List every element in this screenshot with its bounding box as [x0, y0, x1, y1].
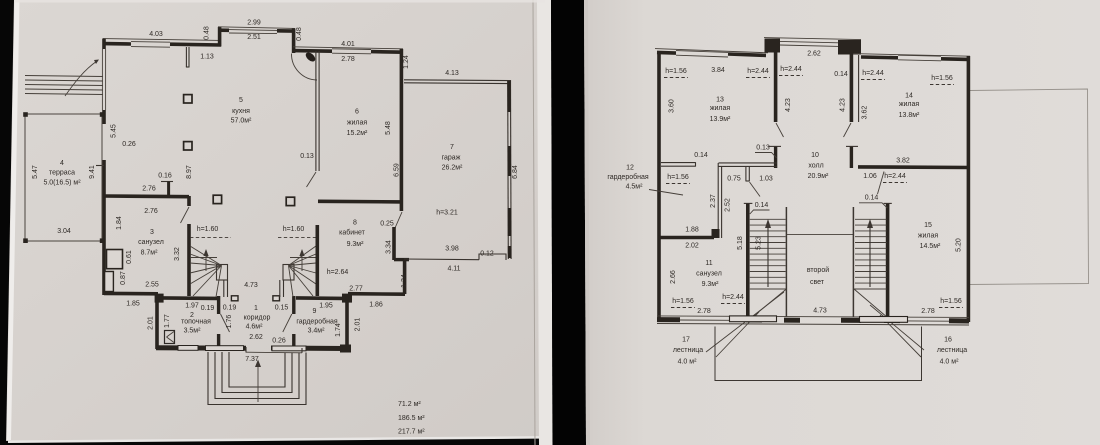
bottom-left outer wall (1.85)	[104, 292, 158, 296]
svg-text:1: 1	[254, 305, 258, 312]
window in top wall (4.01)	[332, 48, 371, 51]
stair2 right wall	[886, 203, 890, 317]
svg-text:0.48: 0.48	[296, 27, 303, 41]
svg-text:топочная: топочная	[181, 319, 211, 326]
svg-text:0.48: 0.48	[204, 26, 211, 40]
svg-text:5.45: 5.45	[111, 124, 118, 138]
closet stub wall right	[850, 146, 853, 168]
svg-text:20.9м²: 20.9м²	[808, 173, 829, 180]
svg-text:13.8м²: 13.8м²	[899, 112, 920, 119]
door leaf below	[776, 123, 784, 137]
svg-text:2.02: 2.02	[685, 243, 699, 250]
right paper left-edge highlight	[584, 0, 590, 445]
svg-text:3.82: 3.82	[896, 158, 910, 165]
svg-text:h=1.60: h=1.60	[283, 226, 305, 233]
dormer bump right block	[838, 40, 861, 55]
topochnaya side door symbol	[165, 331, 175, 344]
svg-text:h=2.44: h=2.44	[722, 294, 744, 301]
svg-text:0.13: 0.13	[756, 145, 770, 152]
svg-text:0.16: 0.16	[158, 173, 172, 180]
svg-text:кухня: кухня	[232, 108, 250, 115]
lower right wall (1.34)	[403, 259, 407, 294]
svg-text:2.78: 2.78	[921, 308, 935, 315]
bottom wall right with window	[271, 346, 345, 352]
svg-text:2.78: 2.78	[341, 56, 355, 63]
svg-text:9.3м²: 9.3м²	[347, 241, 365, 248]
svg-text:4.0 м²: 4.0 м²	[678, 359, 697, 366]
topochnaya top wall	[159, 296, 217, 300]
svg-text:5.0(16.5) м²: 5.0(16.5) м²	[43, 180, 81, 187]
svg-text:8.97: 8.97	[186, 165, 193, 179]
svg-text:4.23: 4.23	[840, 98, 847, 112]
stair 2 landing post rect	[283, 265, 294, 281]
stair 2 arrow	[301, 254, 303, 271]
svg-text:1.97: 1.97	[185, 303, 199, 310]
stair1 inner boundary	[785, 207, 787, 317]
svg-text:второй: второй	[807, 266, 829, 274]
garage right wall	[507, 80, 510, 259]
svg-text:0.26: 0.26	[122, 141, 136, 148]
stair 1 winder fan	[190, 246, 222, 266]
room12 bottom wall	[658, 236, 714, 240]
stair 1 landing post rect	[217, 265, 228, 281]
room12 right wall	[717, 163, 719, 238]
wall stub 0.14 on left wall	[661, 162, 696, 164]
terrace deck outline	[25, 114, 102, 241]
svg-text:2.77: 2.77	[349, 286, 363, 293]
right paper sheet	[584, 0, 1100, 445]
svg-text:2.51: 2.51	[247, 34, 261, 41]
entry door swing arc	[291, 54, 317, 81]
house left outer wall	[102, 39, 106, 50]
svg-text:6.84: 6.84	[512, 165, 519, 179]
top wall right section	[852, 54, 970, 57]
svg-text:жилая: жилая	[918, 233, 939, 240]
svg-text:15: 15	[924, 222, 932, 229]
svg-text:4.23: 4.23	[785, 98, 792, 112]
dormer bump left block	[765, 39, 781, 53]
svg-text:4.0 м²: 4.0 м²	[940, 359, 959, 366]
kabinet right wall (3.34)	[392, 227, 396, 260]
entry door leaf (filled)	[304, 51, 317, 64]
svg-text:h=1.56: h=1.56	[665, 68, 687, 75]
svg-text:4.11: 4.11	[447, 266, 460, 273]
svg-text:0.75: 0.75	[727, 176, 741, 183]
stair1 break diagonal	[750, 289, 786, 319]
svg-text:0.14: 0.14	[755, 202, 769, 209]
left paper sheet	[6, 0, 553, 445]
svg-text:9: 9	[313, 308, 317, 315]
svg-text:26.2м²: 26.2м²	[442, 165, 463, 172]
svg-text:1.86: 1.86	[369, 302, 383, 309]
house right outer wall	[400, 49, 404, 211]
svg-text:2.37: 2.37	[710, 194, 717, 208]
svg-text:3.62: 3.62	[862, 106, 869, 120]
svg-text:4.01: 4.01	[341, 41, 355, 48]
corner block	[155, 294, 164, 303]
svg-text:0.26: 0.26	[272, 338, 286, 345]
left paper top-edge light line	[14, 0, 545, 3]
closet stub wall left (0.13)	[774, 146, 777, 168]
svg-text:2.01: 2.01	[148, 316, 155, 330]
svg-text:8.7м²: 8.7м²	[141, 250, 159, 257]
svg-text:1.03: 1.03	[759, 176, 773, 183]
svg-text:5.20: 5.20	[956, 238, 963, 252]
svg-text:186.5 м²: 186.5 м²	[398, 415, 425, 422]
svg-text:h=1.60: h=1.60	[197, 226, 219, 233]
left paper bottom black strip	[0, 438, 552, 445]
svg-text:1.74: 1.74	[335, 323, 342, 337]
svg-text:3.84: 3.84	[711, 67, 725, 74]
svg-text:4.5м²: 4.5м²	[626, 184, 644, 191]
lower niche in left wall	[105, 272, 114, 292]
svg-text:3.98: 3.98	[445, 246, 459, 253]
left wall segment below window	[102, 110, 106, 124]
svg-text:217.7 м²: 217.7 м²	[398, 429, 425, 436]
svg-text:6.59: 6.59	[394, 163, 401, 177]
kabinet door leaf	[395, 212, 402, 228]
roof terrace faint rectangle	[970, 89, 1089, 285]
bottom wall window mid lines	[680, 319, 730, 321]
svg-text:4.13: 4.13	[445, 70, 459, 77]
svg-text:0.15: 0.15	[275, 305, 289, 312]
svg-text:санузел: санузел	[138, 239, 164, 246]
kabinet bottom wall (1.86)	[348, 292, 405, 296]
sanuzel right wall upper jamb	[187, 196, 191, 206]
porch arrow	[257, 364, 259, 402]
svg-text:гардеробная: гардеробная	[607, 173, 649, 181]
leader line to garderobnaya label	[649, 190, 683, 196]
svg-text:h=2.44: h=2.44	[884, 173, 906, 180]
svg-text:0.61: 0.61	[126, 250, 133, 264]
svg-text:жилая: жилая	[899, 101, 920, 108]
left paper right-edge shadow line	[533, 0, 535, 445]
sanuzel top wall	[104, 194, 189, 198]
svg-text:3.34: 3.34	[386, 240, 393, 254]
bottom outer wall	[657, 324, 969, 326]
entry bump top wall (2.99)	[218, 27, 295, 29]
svg-text:15.2м²: 15.2м²	[347, 130, 368, 137]
svg-text:4: 4	[60, 160, 64, 167]
terrace corner posts	[23, 112, 28, 117]
svg-text:13: 13	[716, 97, 724, 104]
room15 top wall 3.82	[858, 165, 969, 169]
svg-text:h=1.56: h=1.56	[667, 174, 689, 181]
outer top wall right section (4.01)	[293, 47, 403, 49]
garderobnaya top wall	[296, 296, 343, 300]
svg-text:0.19: 0.19	[201, 305, 215, 312]
garage right wall thick tabs	[507, 81, 511, 112]
small tick at wall resume	[96, 165, 104, 167]
svg-text:h=2.44: h=2.44	[780, 66, 802, 73]
right corner block	[342, 294, 352, 303]
svg-text:2.99: 2.99	[247, 20, 261, 27]
svg-text:5.47: 5.47	[32, 165, 39, 179]
sanuzel/stair left wall	[746, 203, 750, 317]
svg-text:2.01: 2.01	[355, 318, 362, 332]
svg-text:4.03: 4.03	[149, 31, 163, 38]
svg-text:4.73: 4.73	[813, 308, 827, 315]
left wall lower segment	[102, 160, 106, 295]
svg-text:гардеробная: гардеробная	[296, 318, 338, 326]
outer top wall left section (4.03)	[103, 39, 221, 41]
svg-text:холл: холл	[808, 163, 823, 170]
entry threshold	[246, 351, 302, 354]
svg-text:h=1.56: h=1.56	[940, 298, 962, 305]
stair 1 lower stringer	[223, 280, 225, 297]
room12 top wall (0.75 / 1.03) double line	[719, 162, 778, 164]
niche in left wall	[107, 250, 123, 269]
svg-text:2.78: 2.78	[697, 308, 711, 315]
top wall left section	[655, 49, 768, 53]
garage top wall	[404, 79, 510, 82]
svg-text:16: 16	[944, 337, 952, 344]
interior wall stub 1.13	[185, 47, 187, 67]
svg-text:57.0м²: 57.0м²	[231, 118, 252, 125]
svg-text:терраса: терраса	[49, 170, 75, 177]
left jog wall (2.01)	[155, 294, 159, 349]
svg-text:лестница: лестница	[937, 347, 967, 354]
svg-text:11: 11	[705, 260, 712, 267]
h=1.60 dashed line right	[278, 237, 317, 239]
door leaf below	[844, 123, 852, 137]
svg-text:8: 8	[353, 220, 357, 227]
svg-text:0.87: 0.87	[120, 271, 127, 285]
stub toward garage	[394, 258, 409, 261]
svg-text:10: 10	[811, 152, 819, 159]
kitchen pier stub 0.16	[161, 181, 173, 183]
room12 door stub	[745, 166, 747, 181]
svg-text:0.14: 0.14	[865, 195, 879, 202]
svg-text:0.14: 0.14	[834, 71, 848, 78]
window in bump wall (2.51)	[229, 29, 277, 32]
svg-text:коридор: коридор	[244, 315, 271, 322]
hall corridor left wall 4.23	[774, 50, 778, 122]
hall corridor right wall 4.23	[850, 52, 854, 122]
svg-text:1.84: 1.84	[116, 216, 123, 230]
svg-text:1.77: 1.77	[164, 314, 171, 328]
svg-text:3.4м²: 3.4м²	[308, 328, 326, 335]
dormer bump top window	[764, 38, 861, 40]
svg-text:13.9м²: 13.9м²	[710, 116, 731, 123]
stair1 up arrow	[767, 227, 769, 287]
svg-text:3.5м²: 3.5м²	[184, 328, 202, 335]
svg-text:5.23: 5.23	[756, 236, 763, 250]
svg-text:жилая: жилая	[710, 105, 731, 112]
svg-text:гараж: гараж	[442, 155, 461, 162]
svg-text:0.13: 0.13	[300, 153, 314, 160]
svg-text:2.66: 2.66	[670, 270, 677, 284]
kabinet left wall	[315, 225, 319, 296]
stair 2 winder fan	[289, 246, 317, 266]
svg-text:2.62: 2.62	[249, 334, 263, 341]
entry bump left wall (0.48 step)	[218, 27, 222, 47]
svg-text:свет: свет	[810, 279, 825, 286]
stair2 leaders to label 16	[870, 305, 924, 350]
svg-text:1.88: 1.88	[685, 227, 699, 234]
svg-text:7: 7	[450, 144, 454, 151]
left paper right-edge bright sliver	[537, 0, 553, 445]
svg-text:6: 6	[355, 109, 359, 116]
svg-text:14.5м²: 14.5м²	[920, 243, 941, 250]
svg-text:2.76: 2.76	[144, 208, 158, 215]
middle black gap between sheets	[551, 0, 586, 445]
sanuzel right wall / stair left wall	[187, 224, 191, 296]
stair1 treads	[750, 218, 786, 220]
svg-text:7.37: 7.37	[245, 356, 259, 363]
terrace steps leader arrow	[65, 61, 97, 96]
kitchen / room6 dividing wall (0.13)	[315, 51, 317, 171]
garderobnaya left wall with door	[292, 296, 295, 314]
svg-text:3: 3	[150, 229, 154, 236]
svg-text:3.60: 3.60	[669, 99, 676, 113]
window sill blocks	[730, 316, 777, 322]
window in top wall (4.03)	[131, 41, 170, 44]
topochnaya right wall with door	[217, 296, 220, 314]
room6 door leaf	[307, 172, 317, 187]
corridor jamb cap squares	[231, 296, 238, 301]
stair 2 lower stringer	[279, 280, 281, 297]
svg-text:h=2.64: h=2.64	[327, 269, 349, 276]
garderobnaya door leaf	[283, 314, 292, 332]
svg-text:3.32: 3.32	[174, 247, 181, 261]
stair2 treads	[855, 218, 887, 220]
stair 1 arrow	[205, 254, 207, 271]
jamb block	[712, 229, 720, 238]
sanuzel door leaf	[181, 207, 190, 223]
svg-text:5.48: 5.48	[385, 121, 392, 135]
svg-text:0.25: 0.25	[380, 221, 394, 228]
porch nested steps	[208, 352, 306, 405]
h=1.60 dashed line left	[190, 237, 231, 239]
window to terrace in left wall	[101, 49, 103, 110]
svg-text:2.55: 2.55	[145, 282, 159, 289]
window 3.84	[676, 51, 728, 53]
svg-text:4.6м²: 4.6м²	[246, 324, 264, 331]
svg-text:1.85: 1.85	[126, 301, 140, 308]
svg-text:1.13: 1.13	[200, 54, 214, 61]
entry bump right wall (0.48 step)	[292, 29, 296, 54]
room12 door swing	[750, 182, 761, 197]
svg-text:9.3м²: 9.3м²	[702, 281, 720, 288]
room6 bottom wall	[318, 200, 403, 204]
svg-text:0.19: 0.19	[223, 305, 237, 312]
bottom wall left with windows	[156, 345, 246, 351]
svg-text:1.06: 1.06	[863, 173, 877, 180]
svg-text:2.52: 2.52	[725, 198, 732, 212]
svg-text:0.14: 0.14	[694, 152, 708, 159]
svg-text:0.12: 0.12	[480, 251, 494, 258]
right outer wall	[967, 56, 971, 322]
svg-text:h=3.21: h=3.21	[436, 210, 458, 217]
svg-text:кабинет: кабинет	[339, 229, 366, 237]
svg-text:2.62: 2.62	[807, 51, 821, 58]
terrace steps lines	[25, 76, 103, 77]
garage bottom wall	[404, 258, 479, 261]
kitchen column squares	[184, 95, 192, 103]
stair1 leader to label 17	[706, 292, 784, 352]
svg-text:4.73: 4.73	[244, 282, 258, 289]
svg-text:h=1.56: h=1.56	[672, 298, 694, 305]
svg-text:1.95: 1.95	[319, 303, 333, 310]
svg-text:12: 12	[626, 165, 634, 172]
svg-text:h=1.56: h=1.56	[931, 75, 953, 82]
stair2 break diagonal	[854, 289, 888, 318]
svg-text:9.41: 9.41	[89, 165, 96, 179]
svg-text:14: 14	[905, 93, 913, 100]
topochnaya door leaf	[221, 314, 230, 332]
svg-text:5.18: 5.18	[737, 236, 744, 250]
left outer wall	[657, 51, 661, 322]
left paper bright left edge	[7, 0, 20, 441]
svg-text:2.76: 2.76	[142, 186, 156, 193]
stair2 up arrow	[869, 227, 871, 287]
svg-text:лестница: лестница	[673, 347, 703, 354]
svg-text:1.24: 1.24	[403, 55, 410, 69]
svg-text:5: 5	[239, 97, 243, 104]
svg-text:3.04: 3.04	[57, 228, 71, 235]
lower big rectangle	[715, 327, 922, 381]
svg-text:17: 17	[682, 337, 690, 344]
left paper bright bottom edge	[8, 436, 550, 443]
svg-text:71.2 м²: 71.2 м²	[398, 401, 421, 408]
svg-text:жилая: жилая	[347, 120, 368, 127]
svg-text:1.76: 1.76	[226, 315, 233, 329]
garage door tab 0.12	[479, 254, 506, 260]
svg-text:h=2.44: h=2.44	[862, 70, 884, 77]
stair2 inner boundary	[852, 207, 854, 317]
svg-text:1.34: 1.34	[401, 274, 408, 288]
second light void line	[787, 234, 854, 236]
right jog wall (2.01)	[345, 294, 349, 349]
svg-text:санузел: санузел	[696, 271, 722, 278]
window 3.84 right	[898, 55, 941, 56]
svg-text:h=2.44: h=2.44	[747, 68, 769, 75]
